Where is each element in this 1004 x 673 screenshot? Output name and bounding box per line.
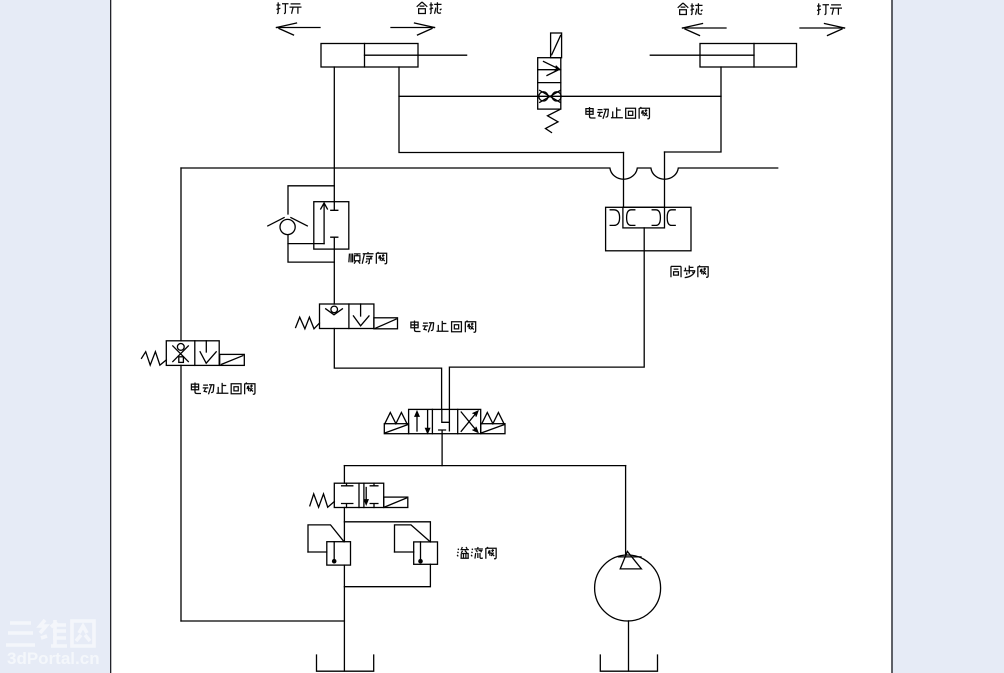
directional valve right solenoid (481, 413, 505, 434)
wire: middle check valve output to directional valve left inlet (334, 329, 441, 410)
label relief valve (457, 547, 496, 559)
sequence valve body (314, 202, 349, 249)
white drawing page (111, 0, 892, 673)
svg-text:3dPortal.cn: 3dPortal.cn (7, 649, 100, 668)
wire: right relief valve return loop (344, 564, 430, 586)
left electric check valve solenoid (220, 354, 245, 365)
left relief valve pilot box (308, 525, 344, 552)
top electric check valve spring (546, 110, 560, 133)
left hydraulic cylinder (321, 44, 467, 68)
wire: left cylinder left port down to sequence valve (333, 67, 335, 202)
top electric check valve solenoid (551, 33, 562, 58)
wire: sync valve left vertical lead (623, 153, 625, 208)
label sequence valve (349, 252, 387, 264)
label electric check valve (left) (191, 383, 255, 395)
left relief valve body (327, 542, 351, 565)
shutoff valve body (334, 483, 383, 507)
top electric check valve body (538, 58, 561, 109)
left tank (317, 655, 374, 671)
wire: long lateral line with two hops (181, 168, 778, 179)
directional valve left position arrows (415, 411, 430, 434)
wire: sequence valve output down to middle check valve (333, 249, 335, 304)
left cylinder arrow close (points right) (391, 23, 435, 35)
middle electric check valve spring (296, 317, 320, 329)
page left border (110, 0, 111, 673)
label electric check valve (middle) (411, 321, 476, 333)
wire: relief branch to right relief valve (344, 522, 430, 542)
wire: right cylinder left port to sync valve right lead (665, 67, 722, 152)
right hydraulic cylinder (650, 44, 796, 68)
shutoff valve spring (310, 494, 335, 507)
wire: directional valve bottom port to pressure line (441, 434, 443, 466)
middle electric check valve body (320, 304, 374, 329)
directional valve left solenoid (384, 413, 408, 434)
wire: pump outlet to tank (628, 621, 630, 671)
page right border (891, 0, 892, 673)
label electric check valve (top) (586, 107, 650, 119)
right relief valve pilot box (395, 525, 431, 552)
shutoff valve solenoid (384, 497, 408, 507)
wire: shutoff valve to left relief valve (343, 508, 345, 542)
left cylinder arrow open (points left) (277, 23, 321, 35)
right relief valve body (414, 542, 438, 564)
middle electric check valve check symbol (326, 306, 343, 315)
label close (top-left-right) (417, 2, 442, 14)
wire: left column bottom return (181, 620, 344, 622)
middle electric check valve solenoid (374, 318, 398, 329)
left electric check valve body (166, 341, 219, 366)
wire: pressure line down to shutoff valve (343, 466, 345, 484)
hydraulic pump (595, 551, 661, 621)
right tank (600, 655, 657, 671)
top electric check valve checks (539, 90, 561, 102)
sequence valve bypass check branch (268, 186, 335, 262)
label open (top-right) (817, 3, 842, 14)
wire: left column vertical (180, 168, 182, 621)
label synchronous valve (671, 266, 708, 278)
left electric check valve check symbol (173, 344, 189, 363)
label close (top-right-left) (678, 3, 703, 15)
directional valve centre position (439, 409, 450, 433)
wire: rod-side line through top check valve (399, 95, 721, 97)
right cylinder arrow open (points right) (800, 24, 845, 36)
watermark 3dPortal logo (6, 620, 94, 646)
right cylinder arrow close (points left) (683, 24, 727, 36)
directional valve right position crossed arrows (461, 411, 478, 432)
wire: sync valve output to directional valve right inlet (449, 228, 644, 410)
left electric check valve spring (142, 352, 167, 365)
synchronous valve (606, 207, 691, 251)
wire: sync valve right vertical lead (664, 152, 666, 207)
directional valve body (409, 409, 481, 433)
wire: pressure supply line (344, 465, 625, 467)
wire: pump inlet riser (625, 466, 627, 557)
wire: left cylinder right port to sync valve left lead (399, 67, 624, 153)
label open (top-left) (277, 2, 302, 13)
wire: left relief valve down to tank (343, 565, 345, 671)
